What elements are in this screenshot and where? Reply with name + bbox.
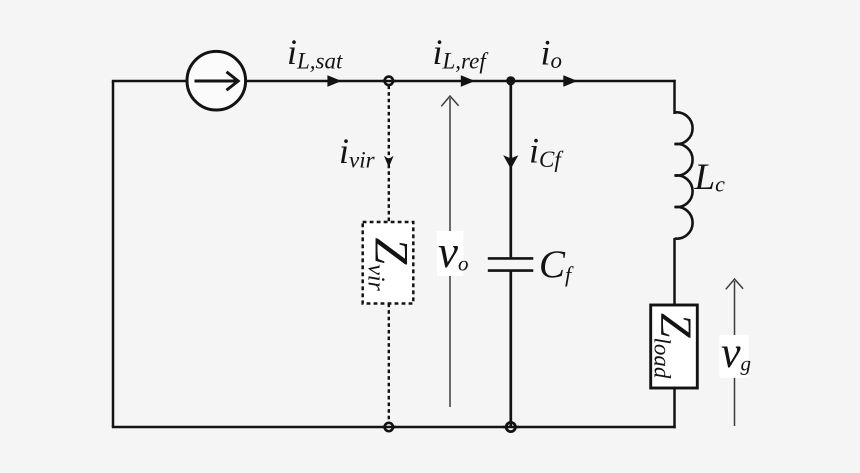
dashed wire: Zvir down to bottom node bbox=[388, 304, 390, 424]
wire right: Zload box to bottom bbox=[673, 388, 676, 428]
arrow i_vir (down) bbox=[384, 156, 394, 168]
wire overlay across bottom-left node bbox=[382, 426, 396, 429]
wire top: node A to node B bbox=[389, 80, 511, 83]
wire capacitor top lead bbox=[509, 81, 512, 257]
wire left vertical bbox=[112, 81, 115, 427]
wire capacitor bottom lead bbox=[509, 271, 512, 428]
impedance Z_vir (dashed box) bbox=[363, 222, 414, 304]
node B (solid dot, top) bbox=[506, 76, 515, 85]
wire top: node B to right corner bbox=[511, 80, 676, 83]
arrow v_g (measurement, up) bbox=[734, 281, 736, 426]
arrow i_o on wire bbox=[563, 75, 577, 87]
node bottom-right (open circle under capacitor) bbox=[506, 422, 515, 431]
wire overlay across node A bbox=[382, 80, 396, 83]
wire right: inductor to Zload box bbox=[673, 238, 676, 306]
impedance Z_load (solid box) bbox=[651, 305, 698, 388]
inductor L_c coil bbox=[675, 112, 693, 238]
arrow v_o (measurement, up) bbox=[449, 98, 451, 407]
wire right: top corner to inductor bbox=[673, 80, 676, 114]
wire overlay across bottom-right node bbox=[503, 426, 519, 429]
wire top: left edge to current source bbox=[112, 80, 187, 83]
capacitor C_f plates bbox=[488, 257, 534, 260]
wire overlay vertical into bottom-right node bbox=[509, 421, 512, 427]
arrow i_L,ref on wire bbox=[461, 75, 475, 87]
arrow i_Cf (down) bbox=[503, 155, 518, 169]
label v_o (white patch) bbox=[437, 231, 464, 276]
wire top: current source to node A bbox=[246, 80, 389, 83]
arrow i_L,sat on wire bbox=[327, 75, 341, 87]
wire bottom horizontal bbox=[112, 426, 676, 429]
dashed wire: node A down to Zvir bbox=[388, 86, 390, 223]
node A (open circle, top) bbox=[385, 77, 393, 85]
label v_g (white patch) bbox=[720, 335, 749, 378]
current source I bbox=[187, 51, 246, 110]
node bottom-left (open circle on dashed branch) bbox=[385, 423, 393, 431]
